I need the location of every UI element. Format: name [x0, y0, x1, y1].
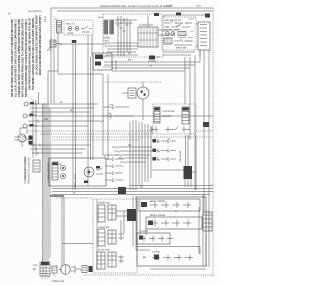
mid-left wire 3 [32, 152, 82, 154]
svg-text:16-3B: 16-3B [166, 5, 173, 8]
right drop A [203, 50, 205, 212]
grommet hatch [19, 135, 28, 143]
connector row D [105, 178, 123, 182]
transformer coil B [110, 20, 114, 34]
svg-text:120V: 120V [103, 40, 109, 43]
svg-text:LATCH SW: LATCH SW [162, 110, 175, 113]
svg-text:DOOR SW: DOOR SW [98, 202, 110, 205]
switch 1a [98, 205, 105, 222]
wire 1 to blob [116, 211, 127, 216]
title text above border [100, 5, 172, 8]
svg-text:IND LTS: IND LTS [66, 23, 75, 26]
terminal circle L1 [24, 102, 28, 106]
ground label rotated [24, 156, 30, 184]
svg-text:EOC RELAY K1: EOC RELAY K1 [164, 19, 182, 22]
door connector a [82, 266, 87, 273]
harness verticals top-left bundle [53, 40, 55, 103]
wire control-TB b [196, 45, 198, 47]
transformer coil A [104, 20, 108, 34]
harness verticals group5 [103, 74, 108, 160]
right band wire 2 [104, 64, 195, 66]
bottom-left vertical 2 [63, 197, 65, 264]
right band wire 4 [112, 70, 185, 72]
TB ticks [200, 25, 207, 46]
wire N [27, 115, 213, 117]
sheet corner mark [43, 16, 47, 22]
riser to top-left [39, 71, 59, 104]
control verticals [118, 16, 130, 56]
switch 3a hatch [97, 252, 105, 269]
lamp B dot [76, 28, 77, 29]
blob tails [185, 179, 191, 187]
svg-text:BAKE BR: BAKE BR [176, 47, 187, 50]
connector arrow J2 [50, 40, 56, 47]
band D wire 1 [130, 185, 213, 187]
left bundle verticals [43, 103, 51, 262]
breaker bundle [186, 135, 189, 166]
svg-text:2100W: 2100W [140, 230, 148, 233]
dashed rail mid page A [52, 136, 213, 138]
sensor label rotated [24, 157, 50, 180]
fan motor [137, 87, 149, 99]
svg-text:EDGES LEADS BEFORE CAN DRESSED: EDGES LEADS BEFORE CAN DRESSED WHEN COPP… [38, 15, 42, 75]
svg-text:SURF: SURF [67, 32, 74, 35]
svg-text:MOTOR: MOTOR [162, 115, 171, 118]
element row 1 [150, 202, 191, 208]
ladder corner 2 [114, 151, 152, 152]
right band wire 3 [112, 67, 190, 69]
svg-text:OR: OR [44, 118, 48, 121]
fan capacitor [128, 88, 136, 98]
door switch dashed box [93, 199, 137, 273]
inner top box [139, 199, 200, 211]
ladder corner 5 [120, 162, 146, 163]
terminal block TB [198, 22, 210, 50]
svg-text:16-4: 16-4 [196, 5, 201, 8]
latch stack ticks [154, 112, 160, 122]
neon B [171, 32, 175, 36]
neon A dot [167, 33, 168, 34]
motor center line [59, 265, 66, 275]
top-right dashed box oven control [162, 17, 196, 50]
svg-text:P13: P13 [33, 264, 38, 267]
row 3 box [137, 233, 170, 244]
svg-text:OVEN SENSOR: OVEN SENSOR [47, 162, 50, 180]
latch dashed box [153, 104, 196, 134]
clock motor B [60, 173, 65, 178]
bottom-left vertical [61, 197, 63, 266]
svg-text:BROIL 3400W: BROIL 3400W [150, 214, 166, 217]
neon B dot [173, 33, 174, 34]
sensor ticks [34, 163, 39, 169]
clock motor A [60, 165, 65, 170]
wires right of grid [158, 30, 179, 35]
switch 2b hatch [108, 230, 116, 244]
lamp switch [96, 168, 103, 175]
cluster2 bits [118, 232, 124, 240]
svg-text:16-2: 16-2 [43, 16, 47, 22]
mid band wire 3 [30, 111, 90, 113]
surface switch contacts [81, 27, 92, 33]
wire L1 [28, 103, 98, 105]
row C blob [153, 157, 157, 161]
dark connector blob [127, 209, 136, 221]
wire across to center box [58, 43, 106, 45]
L1 label [30, 102, 34, 104]
P1 ticks [57, 23, 62, 32]
motor ticks [71, 266, 82, 274]
wire drop x92 [91, 35, 93, 57]
cord wires [14, 128, 33, 147]
lamp A dot [69, 28, 70, 29]
switch 1b [108, 205, 116, 220]
mid-left wire 1 [30, 144, 90, 146]
door connector b [89, 266, 93, 272]
element row 4 [152, 255, 193, 261]
wire L2 [27, 125, 88, 127]
oven lamp [84, 167, 94, 177]
motor brush A [141, 91, 143, 93]
band D wire 2 [52, 188, 213, 190]
switch 3a [97, 252, 105, 269]
page number 16 [8, 13, 11, 16]
svg-text:GROUND TO CHASSIS: GROUND TO CHASSIS [27, 157, 30, 184]
band corner left [58, 44, 103, 74]
right-center vertical bundle [130, 120, 151, 190]
wire control-TB a [196, 23, 198, 25]
bottom connector cluster [40, 262, 50, 276]
svg-text:16-3: 16-3 [98, 16, 103, 19]
cluster hatch [40, 262, 50, 276]
thermal fuse row A [152, 139, 176, 143]
control lower contacts [174, 39, 192, 45]
harness verticals group3 [73, 44, 76, 190]
dashed rail above motor [105, 81, 162, 83]
sensor stack [33, 160, 40, 172]
grid inner horizontals [138, 33, 158, 40]
neon A [166, 32, 170, 36]
switch 1b hatch [108, 205, 116, 220]
svg-text:CLOCK DLB: CLOCK DLB [139, 24, 153, 27]
oven light assembly box [49, 158, 106, 186]
resistor ticks [180, 32, 184, 36]
mid components row [52, 162, 58, 180]
drop x200 [199, 50, 201, 57]
mid band wire 4 [28, 121, 104, 122]
svg-text:WIRING INFORMATION - MER6772 E: WIRING INFORMATION - MER6772 ELECTRIC SL… [100, 5, 172, 8]
lamp filament [86, 169, 92, 175]
svg-text:BK: BK [33, 268, 37, 271]
tick marks on verticals [115, 15, 148, 31]
harness verticals group6 [112, 60, 116, 70]
bottom-right link wires [137, 207, 206, 269]
svg-text:1200W: 1200W [152, 251, 160, 254]
latch lower comp B [165, 127, 178, 133]
harness verticals group4 [88, 57, 93, 186]
connector row A [105, 157, 123, 161]
motor brush B [144, 94, 146, 96]
ladder corner 4 [118, 158, 148, 159]
control contacts r1 [164, 21, 192, 23]
row 2 box [146, 217, 202, 229]
element row 3 [140, 236, 173, 242]
small rect lower-left [164, 38, 172, 44]
vertical pair mid-left [33, 100, 36, 158]
grid inner verticals [141, 27, 156, 47]
svg-text:GROUND CHASSIS: GROUND CHASSIS [24, 157, 27, 179]
service notes block (rotated) [10, 15, 42, 97]
row B blob [153, 149, 157, 153]
convection motor body [52, 266, 57, 273]
switch 3b [108, 252, 116, 267]
clock relay grid [138, 27, 158, 47]
diagram bottom border [84, 274, 213, 276]
terminal circle L2 [23, 124, 27, 128]
control resistor [178, 32, 186, 36]
left dashed stub [53, 16, 55, 40]
band D dark segment [50, 195, 64, 197]
right band wire 1 [104, 50, 200, 62]
ladder corner 1 [112, 147, 152, 148]
blob side wires [152, 135, 196, 190]
right cluster fill [203, 211, 212, 231]
svg-text:OVEN LIGHT: OVEN LIGHT [74, 173, 77, 188]
connector row C [105, 171, 123, 175]
svg-text:16-2 NOTES: 16-2 NOTES [28, 10, 42, 13]
switch 2a [98, 229, 105, 246]
right mid verticals [185, 55, 195, 190]
mid-left wire 2 [30, 148, 86, 150]
cluster dark cap [41, 262, 49, 265]
switch 1a hatch [98, 209, 105, 217]
svg-text:INTLK SW: INTLK SW [98, 249, 110, 252]
top-right bus [164, 15, 210, 17]
fuse label rotated [179, 150, 182, 162]
row A blob [153, 139, 157, 143]
center-top control dashed box [103, 14, 163, 57]
latch lower comp C [182, 127, 190, 133]
corner wire x103 [103, 107, 118, 155]
top-left dashed box surface lights [64, 20, 93, 35]
latch connector stack [154, 107, 160, 123]
diagram right border [212, 8, 214, 277]
svg-text:CONV FAN: CONV FAN [52, 280, 64, 283]
mid band wire 2 [30, 107, 94, 109]
mid band dashed rail [28, 130, 213, 132]
breaker connector blob [184, 166, 193, 179]
diagram left border upper [50, 8, 52, 103]
lower-left ticks [166, 38, 170, 44]
svg-text:R: R [175, 210, 177, 213]
right drop B [208, 50, 210, 195]
power cord grommet [18, 134, 26, 142]
right connector cluster [203, 212, 212, 231]
body hatch [52, 268, 57, 276]
svg-text:BK: BK [143, 256, 147, 259]
latch lower comp A [150, 127, 158, 133]
thermal fuse row B [152, 148, 176, 152]
connector pair row 2 [103, 114, 133, 118]
coil B hatch [110, 22, 114, 32]
sheet header text [28, 10, 42, 13]
convection motor [61, 265, 71, 275]
cluster3 bits [118, 255, 124, 263]
switch 2a hatch [98, 233, 105, 241]
capacitor ticks [130, 91, 135, 96]
ladder corner 3 [116, 155, 150, 156]
connector pair row 1 [103, 105, 129, 109]
svg-text:BAKE 2400W: BAKE 2400W [150, 200, 165, 203]
latch right ticks [182, 112, 189, 121]
ladder horizontals [105, 43, 138, 55]
band D dashed [56, 197, 93, 199]
oven light label rotated [74, 173, 77, 188]
terminal circle N [23, 114, 27, 118]
right bottom verticals [203, 195, 209, 267]
N label [30, 114, 34, 116]
svg-text:R: R [150, 65, 152, 68]
thermal fuse row C [152, 157, 176, 161]
wire P1 down [57, 32, 59, 44]
row 2 elements [150, 220, 191, 227]
band D wire 3 [52, 191, 213, 193]
dashed rail mid page B [52, 139, 140, 141]
indicator lamp A [68, 27, 72, 31]
coil A hatch [104, 22, 108, 32]
svg-text:BK: BK [70, 109, 74, 112]
inter-cluster verticals [121, 211, 124, 234]
indicator lamp B [75, 27, 79, 31]
cluster tails [42, 276, 48, 279]
L2 label [30, 124, 34, 126]
latch right stack [182, 107, 189, 124]
switch 2b [108, 230, 116, 244]
svg-text:15A FUSE: 15A FUSE [179, 150, 182, 162]
connector row B [105, 164, 123, 168]
wire drop x88 [87, 35, 89, 57]
svg-text:LIGHT SW: LIGHT SW [98, 226, 110, 229]
diagram top border [51, 7, 213, 9]
wire motor down [142, 99, 144, 120]
control contacts r2 [164, 25, 190, 27]
connector P1 [57, 21, 62, 27]
broil element outer box [137, 197, 206, 266]
connector fills [83, 268, 86, 271]
svg-text:BK: BK [128, 59, 132, 62]
inner vertical [96, 199, 98, 270]
wires below control [163, 52, 195, 55]
switch 3b hatch [108, 252, 116, 267]
